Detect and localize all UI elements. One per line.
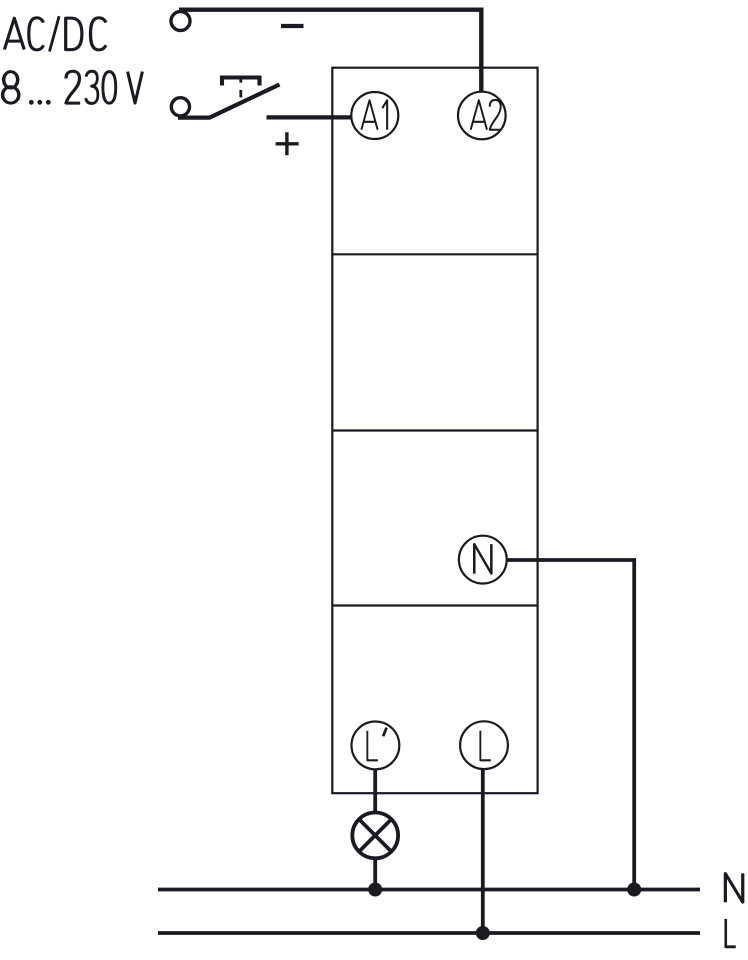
switch lever S1 bbox=[178, 85, 280, 118]
junction dot L wire-L rail bbox=[476, 926, 490, 940]
label L rail bbox=[726, 919, 736, 947]
label L' terminal bbox=[367, 731, 378, 761]
device section divider 1 bbox=[332, 253, 537, 255]
minus polarity label bbox=[281, 24, 304, 28]
terminal A2 bbox=[458, 92, 506, 140]
plus polarity label bbox=[276, 132, 299, 155]
wire switch to A1 (plus wire) bbox=[267, 115, 354, 119]
label N terminal bbox=[474, 544, 491, 574]
switch terminal circle bbox=[171, 98, 189, 116]
wire L terminal to L rail bbox=[481, 768, 485, 933]
wire from supply terminal to A2 (minus wire) bbox=[179, 10, 481, 92]
pushbutton actuator dashed link bbox=[239, 77, 242, 97]
terminal N bbox=[459, 536, 507, 584]
terminal L bbox=[460, 721, 508, 769]
label L terminal bbox=[480, 731, 491, 761]
label AC/DC bbox=[4, 16, 106, 51]
label dots of 8...230V bbox=[29, 100, 51, 105]
wire L' terminal to lamp and N rail bbox=[373, 768, 377, 890]
pushbutton actuator bracket bbox=[222, 78, 260, 86]
label N rail bbox=[725, 873, 742, 902]
label A2 bbox=[471, 100, 502, 130]
L rail bbox=[158, 931, 700, 935]
lamp E1 bbox=[352, 813, 398, 859]
junction dot right bus-N rail bbox=[627, 883, 641, 897]
wire N terminal to right bus bbox=[505, 560, 634, 890]
device outline rectangle bbox=[332, 68, 537, 794]
terminal L' bbox=[352, 722, 400, 770]
junction dot lamp-N rail bbox=[368, 883, 382, 897]
supply terminal top (minus) bbox=[171, 12, 190, 31]
N rail bbox=[158, 888, 700, 892]
terminal A1 bbox=[351, 92, 398, 139]
label prime of L' bbox=[383, 728, 387, 737]
device section divider 2 bbox=[332, 429, 537, 431]
label 8 ... 230 V bbox=[3, 71, 143, 103]
device section divider 3 bbox=[332, 604, 537, 606]
label A1 bbox=[361, 100, 387, 130]
